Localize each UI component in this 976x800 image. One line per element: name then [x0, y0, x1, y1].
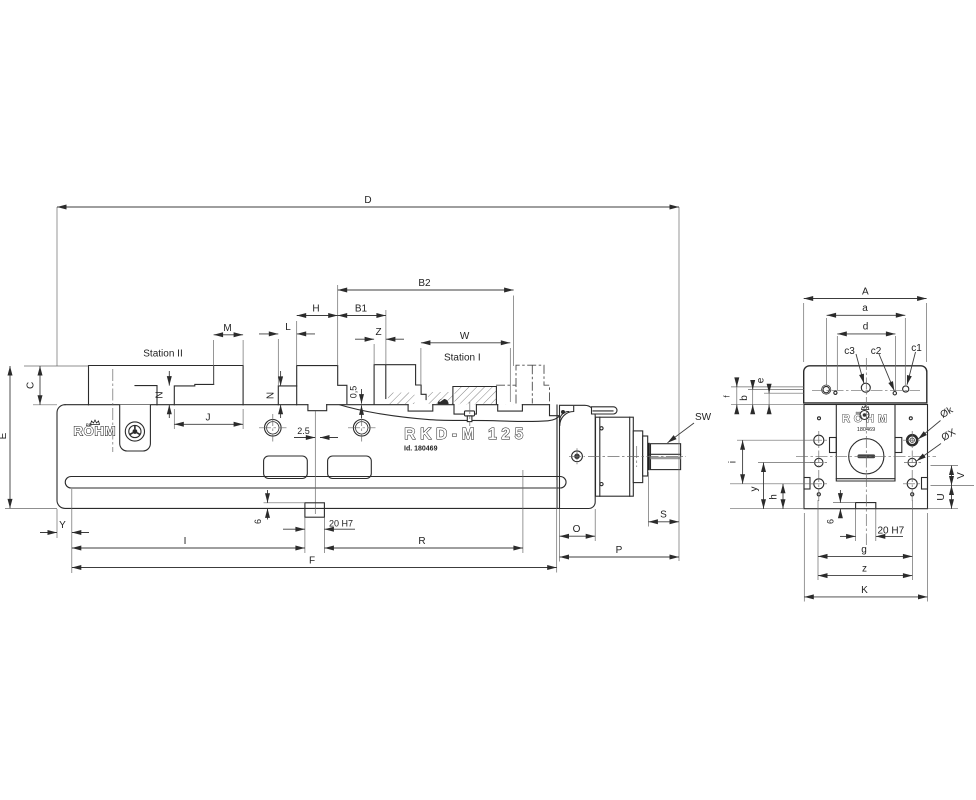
svg-text:J: J [206, 413, 211, 424]
svg-text:g: g [861, 544, 867, 555]
svg-text:N: N [265, 392, 276, 399]
svg-text:c2: c2 [871, 346, 882, 357]
svg-text:I: I [184, 536, 187, 547]
svg-text:R: R [418, 536, 425, 547]
svg-text:A: A [862, 287, 869, 298]
svg-text:20 H7: 20 H7 [878, 526, 905, 537]
svg-text:Station II: Station II [143, 349, 182, 360]
svg-text:F: F [309, 556, 315, 567]
svg-text:Station I: Station I [444, 353, 481, 364]
svg-text:B2: B2 [418, 278, 431, 289]
svg-text:a: a [862, 303, 868, 314]
svg-text:6: 6 [253, 519, 263, 524]
svg-text:M: M [223, 323, 231, 334]
svg-text:Y: Y [59, 520, 66, 531]
svg-text:y: y [749, 487, 760, 492]
svg-text:RKD-M 125: RKD-M 125 [404, 426, 526, 443]
svg-text:L: L [285, 322, 291, 333]
svg-text:U: U [936, 493, 947, 500]
svg-text:D: D [364, 195, 371, 206]
svg-text:S: S [660, 510, 667, 521]
svg-text:2.5: 2.5 [297, 426, 310, 436]
svg-text:P: P [616, 545, 623, 556]
svg-text:i: i [728, 461, 739, 463]
svg-text:SW: SW [695, 412, 712, 423]
svg-text:6: 6 [826, 519, 836, 524]
svg-text:Id. 180469: Id. 180469 [404, 446, 438, 453]
svg-text:Z: Z [375, 327, 381, 338]
svg-text:h: h [769, 494, 780, 500]
svg-text:V: V [956, 472, 967, 479]
svg-text:N: N [155, 391, 166, 398]
svg-text:H: H [312, 304, 319, 315]
svg-text:20 H7: 20 H7 [329, 519, 353, 529]
svg-text:d: d [863, 322, 869, 333]
svg-text:z: z [862, 564, 867, 575]
svg-text:b: b [739, 395, 750, 401]
svg-text:W: W [460, 331, 470, 342]
svg-text:c1: c1 [911, 343, 922, 354]
svg-text:K: K [861, 585, 868, 596]
svg-text:O: O [573, 524, 581, 535]
svg-text:E: E [0, 432, 9, 439]
svg-text:B1: B1 [355, 304, 368, 315]
svg-text:e: e [756, 377, 767, 383]
svg-text:C: C [26, 382, 37, 389]
svg-text:RÖHM: RÖHM [74, 424, 116, 439]
svg-text:0,5: 0,5 [349, 386, 359, 399]
svg-text:c3: c3 [844, 346, 855, 357]
